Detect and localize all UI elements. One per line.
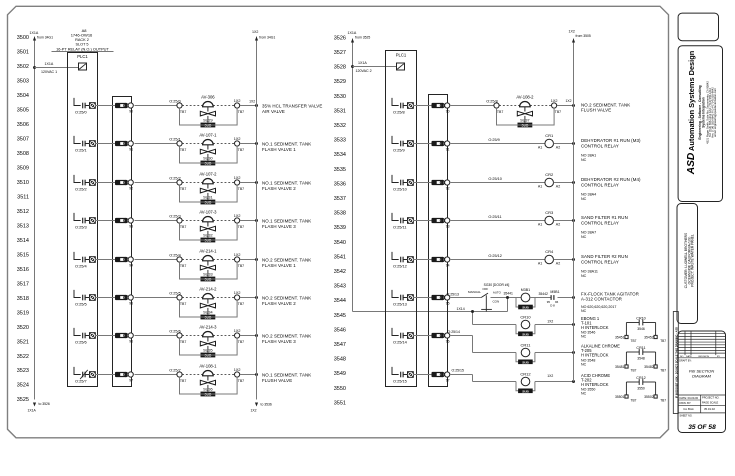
svg-text:96: 96 [555, 300, 559, 304]
svg-text:NC: NC [581, 335, 587, 339]
contactor coil M3B1 [516, 288, 535, 309]
svg-text:DATE: DATE [686, 355, 692, 358]
wire to 1X2 rail [554, 181, 576, 184]
wire [95, 335, 116, 337]
wire [451, 105, 495, 107]
svg-text:3522: 3522 [17, 354, 29, 360]
PLC1 module header [52, 28, 114, 52]
title block: customer box [677, 204, 698, 324]
svg-text:O:25/3: O:25/3 [169, 215, 180, 219]
svg-text:3537: 3537 [334, 196, 346, 202]
svg-text:CR11: CR11 [636, 346, 645, 350]
svg-text:O:25/11: O:25/11 [488, 215, 501, 219]
svg-text:1X2: 1X2 [251, 408, 257, 412]
svg-text:1X2: 1X2 [551, 99, 558, 103]
terminal strip TB (right) [429, 95, 448, 387]
svg-text:FLASH VALVE 2: FLASH VALVE 2 [262, 301, 296, 306]
svg-text:3534: 3534 [334, 152, 346, 158]
svg-text:A-312 CONTACTOR: A-312 CONTACTOR [581, 296, 622, 301]
svg-text:SU37: SU37 [520, 118, 530, 122]
svg-text:35442: 35442 [539, 292, 549, 296]
svg-text:1X2: 1X2 [566, 99, 572, 103]
selector switch SG30 [481, 283, 509, 311]
solenoid valve AV-306 [169, 95, 244, 128]
svg-text:M5B1: M5B1 [550, 290, 559, 294]
wire [451, 177, 546, 182]
relay coil CR1 [538, 133, 560, 149]
contact network CR10 [615, 316, 666, 343]
wire [451, 138, 546, 143]
svg-text:CONTROL RELAY: CONTROL RELAY [581, 143, 619, 148]
svg-text:email: engineering(a)asdautoma: email: engineering(a)asdautomation.com [713, 87, 717, 136]
wire to 1X2 rail [554, 142, 576, 145]
output description CR2 [581, 177, 641, 201]
svg-text:35481: 35481 [615, 365, 625, 369]
wire [95, 143, 116, 145]
svg-text:O:25/9: O:25/9 [488, 138, 499, 142]
svg-text:CR2: CR2 [545, 172, 554, 177]
svg-text:3530: 3530 [334, 94, 346, 100]
svg-text:3546: 3546 [637, 327, 645, 331]
svg-text:3520: 3520 [17, 325, 29, 331]
svg-text:90: 90 [129, 109, 133, 113]
net line numbers 3500-3525 [17, 35, 29, 403]
fuse terminal 96 (right) [432, 333, 450, 343]
svg-text:3546: 3546 [334, 327, 346, 333]
svg-text:CR10: CR10 [636, 316, 645, 320]
node 1X1A tap 3502 [33, 62, 79, 74]
svg-text:H INTERLOCK: H INTERLOCK [581, 353, 609, 358]
svg-text:SUB: SUB [522, 389, 529, 393]
svg-text:3549: 3549 [334, 371, 346, 377]
wire 1X2 right rail of left ladder [251, 30, 276, 412]
svg-text:3550: 3550 [334, 386, 346, 392]
svg-text:AUTO: AUTO [493, 290, 502, 294]
contact network CR11 [615, 346, 666, 373]
svg-text:1X2: 1X2 [234, 368, 241, 372]
wire 1X2 right rail (right ladder) [569, 29, 591, 381]
svg-text:SU31: SU31 [203, 195, 213, 199]
contact O:25/15 [392, 367, 414, 384]
wire 1X1A left rail [28, 31, 54, 412]
fuse terminal 94 (right) [432, 257, 450, 267]
svg-text:AV-108-2: AV-108-2 [516, 95, 534, 100]
svg-text:93: 93 [446, 224, 450, 228]
svg-text:CR4: CR4 [545, 249, 554, 254]
output description rung 3 [262, 219, 311, 229]
solenoid valve AV-107-3 [169, 210, 244, 243]
svg-text:O:25/4: O:25/4 [169, 254, 180, 258]
svg-text:O:25/10: O:25/10 [393, 187, 408, 192]
svg-text:FLASH VALVE 1: FLASH VALVE 1 [262, 263, 296, 268]
svg-text:1746-OW16: 1746-OW16 [71, 33, 93, 38]
svg-text:96: 96 [129, 339, 133, 343]
title block: disclaimer strip [673, 312, 678, 414]
fuse terminal 93 (right) [432, 218, 450, 228]
svg-text:TB7: TB7 [555, 110, 561, 114]
relay coil CR11 [516, 342, 535, 364]
svg-text:1X2: 1X2 [234, 291, 241, 295]
wire [135, 335, 178, 337]
contact O:25/0 [74, 98, 96, 115]
svg-text:ASD Automation Systems Design: ASD Automation Systems Design [686, 50, 697, 175]
svg-text:3542: 3542 [334, 269, 346, 275]
relay coil CR2 [538, 172, 560, 188]
wire to 1X2 rail [557, 99, 575, 107]
wire 35441 [491, 292, 522, 300]
svg-text:SUB: SUB [522, 360, 529, 364]
contact O:25/1 [74, 136, 96, 153]
svg-text:TB7: TB7 [180, 379, 186, 383]
svg-text:TB7: TB7 [180, 148, 186, 152]
svg-text:3510: 3510 [17, 180, 29, 186]
svg-text:AV-214-1: AV-214-1 [199, 249, 217, 254]
svg-text:A2: A2 [556, 223, 560, 227]
svg-text:AV-214-2: AV-214-2 [199, 287, 217, 292]
svg-text:NC: NC [581, 392, 587, 396]
svg-text:SHEET NO.: SHEET NO. [680, 414, 693, 417]
relay coil CR3 [538, 210, 560, 226]
svg-text:3547: 3547 [334, 342, 346, 348]
title block: top box [678, 13, 718, 41]
svg-text:3518: 3518 [17, 296, 29, 302]
contact O:25/5 [74, 290, 96, 307]
svg-text:O:25/8: O:25/8 [393, 110, 405, 115]
svg-text:O:25/4: O:25/4 [75, 264, 88, 269]
svg-text:SU29: SU29 [203, 118, 213, 122]
solenoid valve AV-108-2 [486, 95, 561, 128]
svg-text:1X14: 1X14 [457, 307, 465, 311]
svg-text:35501: 35501 [615, 395, 625, 399]
wire [95, 105, 116, 107]
title block: drawing info box [678, 331, 726, 433]
fuse terminal 92 (right) [432, 180, 450, 190]
svg-text:AV-107-1: AV-107-1 [199, 133, 217, 138]
solenoid valve AV-108-1 [169, 364, 244, 397]
relay coil CR10 [516, 314, 535, 336]
title block: company box [678, 46, 722, 202]
svg-text:1X2: 1X2 [249, 99, 255, 103]
svg-text:O:25/10: O:25/10 [488, 177, 502, 181]
svg-text:TB7: TB7 [180, 264, 186, 268]
svg-text:3539: 3539 [334, 225, 346, 231]
output description rung 0 [262, 104, 322, 114]
svg-text:TB7: TB7 [631, 369, 637, 373]
svg-text:O:25/0: O:25/0 [169, 100, 180, 104]
svg-text:from 3525: from 3525 [355, 35, 370, 39]
contact O:25/11 [392, 213, 414, 230]
svg-text:PLC1: PLC1 [396, 53, 407, 58]
output description CR12 [581, 373, 610, 396]
svg-text:95: 95 [129, 301, 133, 305]
output description CR3 [581, 215, 628, 239]
svg-text:SU32: SU32 [203, 233, 213, 237]
output description rung 6 [262, 334, 311, 344]
svg-text:35452: 35452 [644, 335, 654, 339]
svg-text:M3B1: M3B1 [521, 288, 530, 292]
output description M3B1 [581, 291, 639, 313]
svg-text:3502: 3502 [17, 64, 29, 70]
svg-text:1X2: 1X2 [547, 319, 553, 323]
wire to 1X2 rail [240, 334, 258, 337]
svg-text:O:25/1: O:25/1 [169, 138, 180, 142]
svg-text:Systems Integration: Systems Integration [701, 97, 705, 128]
svg-text:3540: 3540 [334, 240, 346, 246]
svg-text:1X1A: 1X1A [348, 31, 357, 35]
relay coil CR12 [516, 371, 535, 393]
svg-text:3548: 3548 [334, 357, 346, 363]
svg-text:O:25/12: O:25/12 [393, 264, 407, 269]
svg-text:O:25/3: O:25/3 [75, 225, 87, 230]
svg-text:3548: 3548 [637, 356, 645, 360]
svg-text:FLUSH VALVE: FLUSH VALVE [262, 378, 292, 383]
fuse terminal 97 (right) [432, 372, 450, 382]
svg-text:SUB: SUB [522, 332, 529, 336]
svg-text:91: 91 [129, 147, 133, 151]
svg-text:FLASH VALVE 2: FLASH VALVE 2 [262, 186, 296, 191]
svg-text:3515: 3515 [17, 252, 29, 258]
svg-text:AIR VALVE: AIR VALVE [262, 109, 285, 114]
contact O:25/12 [392, 252, 414, 269]
svg-text:A1: A1 [538, 185, 542, 189]
wire [448, 330, 517, 353]
svg-text:AV-306: AV-306 [201, 95, 215, 100]
fuse terminal 91 (right) [432, 141, 450, 151]
wire [135, 182, 178, 184]
svg-text:3523: 3523 [17, 368, 29, 374]
svg-text:A2: A2 [556, 262, 560, 266]
fuse terminal 97 [115, 372, 133, 382]
terminal L1 PLC1 [79, 63, 87, 70]
PLC1 output module box (right) [386, 51, 417, 387]
svg-text:D 8: D 8 [550, 304, 555, 308]
svg-text:3544: 3544 [334, 298, 346, 304]
svg-text:DWN. BY:: DWN. BY: [680, 401, 692, 405]
wire [135, 220, 178, 222]
svg-text:CR10: CR10 [520, 314, 531, 319]
svg-text:3531: 3531 [334, 108, 346, 114]
fuse terminal 96 [115, 333, 133, 343]
contact O:25/6 [74, 328, 96, 345]
svg-text:16-PT RELAY (N.O.) OUTPUT: 16-PT RELAY (N.O.) OUTPUT [56, 47, 109, 52]
svg-text:1X1A: 1X1A [358, 61, 367, 65]
svg-text:NC: NC [581, 309, 587, 313]
svg-text:TB7: TB7 [497, 110, 503, 114]
svg-text:TB7: TB7 [238, 148, 244, 152]
output description AV-108-2 [581, 103, 630, 113]
contact O:25/10 [392, 175, 414, 192]
svg-text:TB7: TB7 [660, 369, 666, 373]
wire [95, 220, 116, 222]
svg-text:CR12: CR12 [636, 376, 645, 380]
svg-text:35451: 35451 [615, 335, 625, 339]
output description CR4 [581, 254, 628, 278]
svg-text:PLC1: PLC1 [77, 54, 88, 59]
svg-text:PAGE SCALE: PAGE SCALE [702, 400, 719, 404]
svg-text:1X2: 1X2 [234, 99, 241, 103]
svg-text:TB7: TB7 [660, 399, 666, 403]
svg-text:AV-107-3: AV-107-3 [199, 210, 217, 215]
svg-text:3508: 3508 [17, 151, 29, 157]
contact O:25/3 [74, 213, 96, 230]
wire [135, 297, 178, 299]
svg-text:CONTROL RELAY: CONTROL RELAY [581, 182, 619, 187]
svg-text:DIAGRAM: DIAGRAM [692, 374, 711, 379]
svg-text:3503: 3503 [17, 79, 29, 85]
svg-text:35 OF 58: 35 OF 58 [688, 424, 716, 431]
svg-text:3519: 3519 [17, 310, 29, 316]
svg-text:TB7: TB7 [660, 339, 666, 343]
wire [413, 105, 432, 107]
svg-text:3545: 3545 [334, 313, 346, 319]
svg-text:3509: 3509 [17, 166, 29, 172]
svg-text:TB7: TB7 [180, 225, 186, 229]
svg-text:O:25/15: O:25/15 [452, 369, 465, 373]
svg-text:TB7: TB7 [631, 339, 637, 343]
svg-text:1X2: 1X2 [234, 329, 241, 333]
solenoid valve AV-107-2 [169, 172, 244, 205]
svg-text:3526: 3526 [334, 35, 346, 41]
svg-text:O:25/9: O:25/9 [393, 148, 405, 153]
svg-text:1X1A: 1X1A [28, 408, 37, 412]
svg-text:OFF: OFF [482, 287, 488, 291]
contact O:25/7 [74, 367, 96, 384]
svg-text:92: 92 [446, 186, 450, 190]
svg-text:3504: 3504 [17, 93, 29, 99]
wire [135, 143, 178, 145]
wire [413, 143, 432, 145]
svg-text:A1: A1 [538, 223, 542, 227]
svg-text:35.01.02: 35.01.02 [704, 407, 715, 411]
wire [447, 290, 482, 297]
svg-text:90: 90 [446, 109, 450, 113]
svg-text:from 34G1: from 34G1 [37, 35, 53, 39]
wire [135, 374, 178, 376]
svg-text:CR1: CR1 [545, 133, 554, 138]
svg-text:3500: 3500 [17, 35, 29, 41]
svg-text:3511: 3511 [17, 194, 29, 200]
svg-text:A2: A2 [556, 146, 560, 150]
terminal strip TB [113, 97, 132, 387]
output description rung 1 [262, 142, 311, 152]
wire [451, 215, 546, 220]
svg-text:1X1A: 1X1A [45, 62, 54, 66]
wire to 1X2 rail [535, 374, 575, 383]
wire [413, 259, 432, 261]
svg-text:3517: 3517 [17, 281, 29, 287]
svg-text:35482: 35482 [644, 365, 654, 369]
svg-text:NC: NC [581, 274, 587, 278]
svg-text:95: 95 [446, 301, 450, 305]
net line numbers 3526-3551 [334, 35, 346, 406]
svg-text:3550: 3550 [637, 386, 645, 390]
fuse terminal 90 [115, 103, 133, 113]
svg-text:91: 91 [446, 147, 450, 151]
output description CR10 [581, 316, 609, 339]
svg-text:SU33: SU33 [203, 272, 213, 276]
svg-text:35441: 35441 [504, 292, 514, 296]
svg-text:3533: 3533 [334, 138, 346, 144]
wire to 1X2 rail [240, 142, 258, 145]
wire [135, 259, 178, 261]
solenoid valve AV-214-3 [169, 325, 244, 358]
svg-text:3536: 3536 [334, 181, 346, 187]
svg-text:93: 93 [129, 224, 133, 228]
svg-text:3516: 3516 [17, 267, 29, 273]
svg-text:FLASH VALVE 3: FLASH VALVE 3 [262, 224, 296, 229]
svg-text:to 3526: to 3526 [39, 402, 50, 406]
svg-text:3505: 3505 [17, 108, 29, 114]
wire to 1X2 rail [240, 99, 258, 107]
svg-text:3528: 3528 [334, 65, 346, 71]
svg-text:97: 97 [129, 378, 133, 382]
terminal L1 PLC1 (right) [397, 63, 405, 70]
svg-text:120VAC 2: 120VAC 2 [356, 69, 372, 73]
output description rung 5 [262, 296, 311, 306]
svg-text:1X2: 1X2 [547, 374, 553, 378]
fuse terminal 93 [115, 218, 133, 228]
svg-text:O:25/8: O:25/8 [486, 100, 497, 104]
output description rung 7 [262, 373, 311, 383]
svg-text:CONTROL RELAY: CONTROL RELAY [581, 220, 619, 225]
svg-text:FLASH VALVE 3: FLASH VALVE 3 [262, 339, 296, 344]
svg-text:O:25/12: O:25/12 [488, 254, 502, 258]
svg-text:3506: 3506 [17, 122, 29, 128]
svg-text:TB7: TB7 [180, 340, 186, 344]
svg-text:O:25/13: O:25/13 [393, 302, 407, 307]
svg-text:120VAC 1: 120VAC 1 [41, 70, 57, 74]
svg-text:CR11: CR11 [521, 342, 532, 347]
svg-text:TB7: TB7 [180, 187, 186, 191]
svg-text:A2: A2 [556, 185, 560, 189]
solenoid valve AV-214-1 [169, 249, 244, 282]
svg-text:TB7: TB7 [238, 379, 244, 383]
wire [413, 335, 432, 337]
svg-text:SU36: SU36 [203, 387, 213, 391]
node 1X1A tap 3528 [351, 61, 397, 73]
svg-text:94: 94 [446, 263, 450, 267]
svg-text:35502: 35502 [644, 395, 654, 399]
svg-text:H INTERLOCK: H INTERLOCK [581, 325, 609, 330]
fuse terminal 91 [115, 141, 133, 151]
svg-text:TB7: TB7 [238, 340, 244, 344]
svg-text:3529: 3529 [334, 79, 346, 85]
svg-text:NC: NC [581, 197, 587, 201]
svg-text:1X2: 1X2 [234, 176, 241, 180]
svg-text:NC: NC [581, 158, 587, 162]
fuse terminal 90 (right) [432, 103, 450, 113]
svg-text:SUB: SUB [522, 306, 529, 310]
svg-text:O:25/2: O:25/2 [169, 177, 180, 181]
wire to 1X2 rail [240, 258, 258, 261]
svg-text:O:25/14: O:25/14 [393, 340, 408, 345]
wire [95, 297, 116, 299]
svg-text:O:25/1: O:25/1 [75, 148, 87, 153]
svg-text:SU34: SU34 [203, 310, 213, 314]
svg-text:TB7: TB7 [631, 399, 637, 403]
wire [451, 254, 546, 259]
svg-text:SU35: SU35 [203, 348, 213, 352]
svg-text:92: 92 [129, 186, 133, 190]
fuse terminal 95 [115, 295, 133, 305]
fuse terminal 95 (right) [432, 295, 450, 305]
svg-text:NC: NC [581, 362, 587, 366]
svg-text:3541: 3541 [334, 254, 346, 260]
svg-text:AV-214-3: AV-214-3 [199, 325, 217, 330]
svg-text:3501: 3501 [17, 50, 29, 56]
svg-text:3551: 3551 [334, 400, 346, 406]
svg-text:3514: 3514 [17, 238, 29, 244]
